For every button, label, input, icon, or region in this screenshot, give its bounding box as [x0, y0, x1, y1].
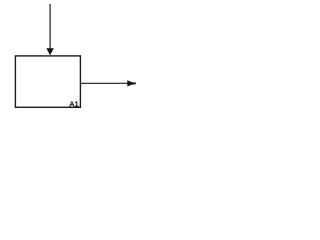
svg-text:A1: A1	[69, 99, 78, 108]
